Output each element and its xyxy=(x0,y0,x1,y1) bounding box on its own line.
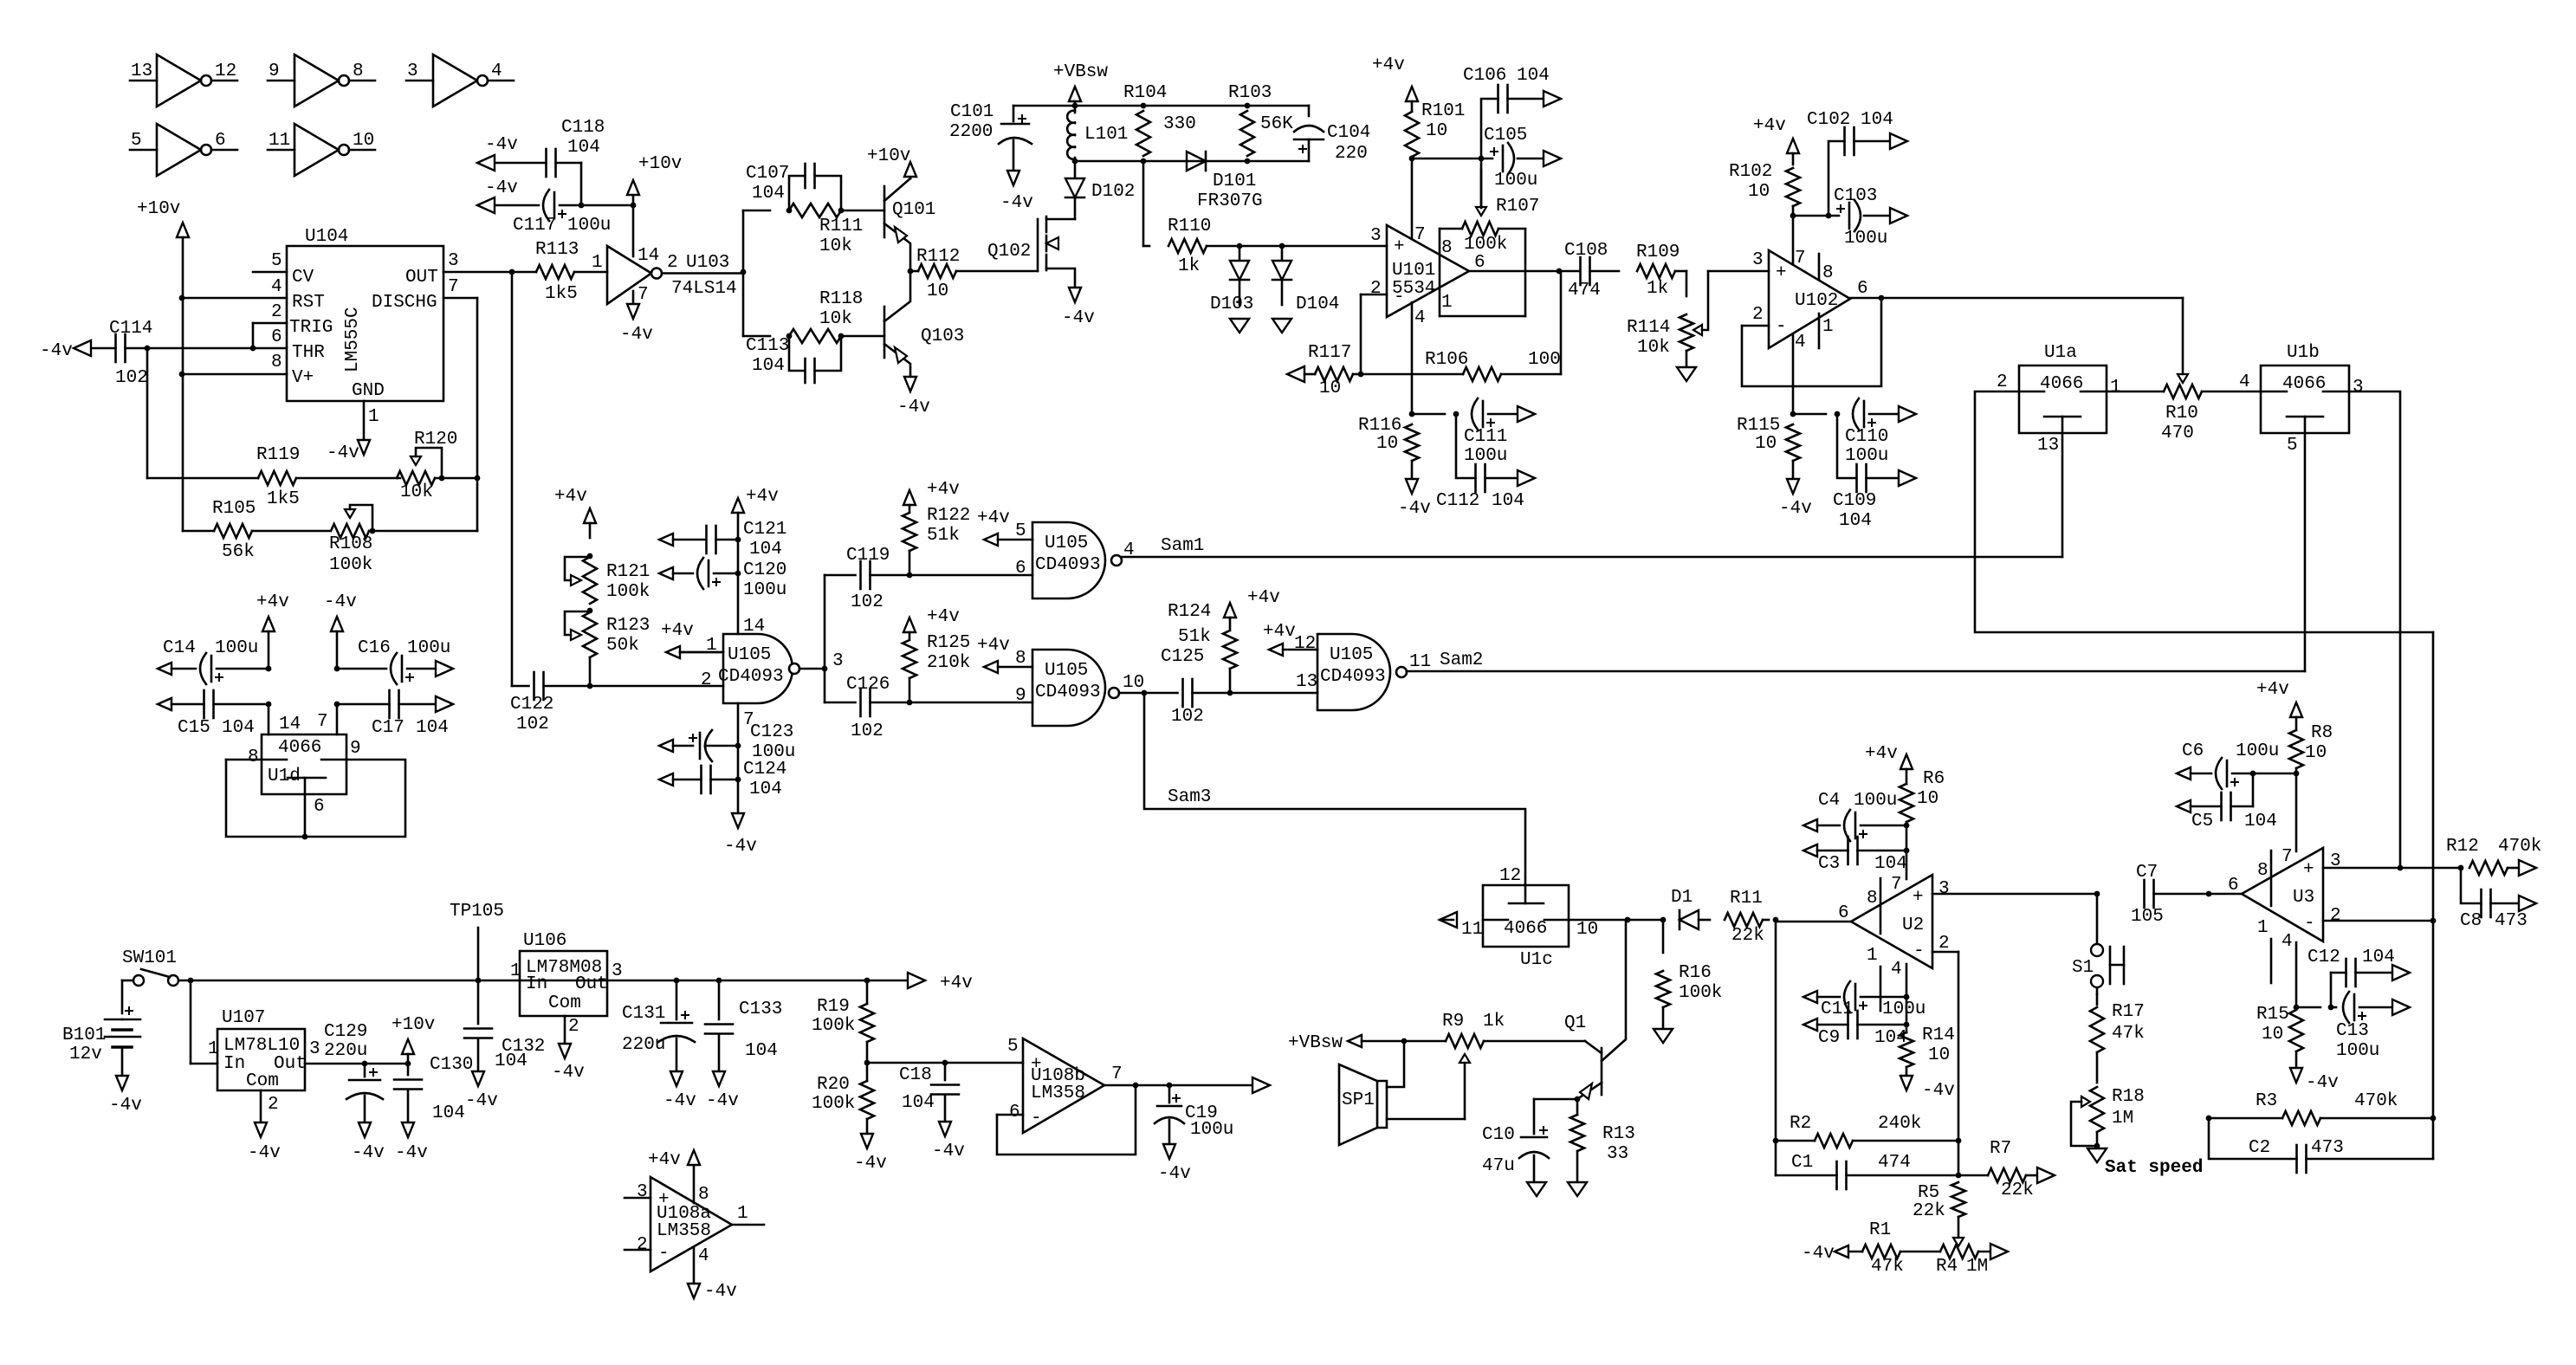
power -4v at C18 xyxy=(932,1122,965,1161)
diode D102 xyxy=(1065,161,1135,219)
signal arrow at R4 xyxy=(1990,1244,2008,1259)
svg-text:Sam1: Sam1 xyxy=(1161,536,1204,556)
svg-text:2: 2 xyxy=(2330,906,2341,926)
wire U1d pins 8-9-6 loop xyxy=(226,760,405,839)
nand gate U105 Sam1 xyxy=(1015,521,1135,598)
svg-text:100k: 100k xyxy=(812,1016,855,1036)
capacitor C121 104 xyxy=(659,520,786,560)
op-amp U101 5534 xyxy=(1370,225,1485,328)
svg-text:104: 104 xyxy=(1492,491,1524,511)
svg-text:C126: C126 xyxy=(846,675,890,695)
svg-text:100u: 100u xyxy=(743,580,786,600)
svg-text:C111: C111 xyxy=(1464,427,1507,447)
svg-text:Q103: Q103 xyxy=(921,327,964,346)
svg-text:7: 7 xyxy=(1414,225,1426,245)
power -4v at U103 pin 7 xyxy=(620,304,653,345)
svg-text:R10: R10 xyxy=(2165,404,2198,424)
svg-text:-4v: -4v xyxy=(932,1142,965,1161)
svg-text:47k: 47k xyxy=(1871,1257,1904,1277)
svg-text:+4v: +4v xyxy=(1247,588,1280,608)
svg-text:R113: R113 xyxy=(535,240,579,260)
svg-text:10: 10 xyxy=(2305,743,2327,763)
svg-text:5: 5 xyxy=(271,251,282,271)
svg-text:47k: 47k xyxy=(2112,1024,2145,1044)
signal arrow at C112 xyxy=(1518,470,1535,486)
wire U104 GND pin 1 xyxy=(363,401,366,441)
signal arrow at R7 xyxy=(2037,1168,2055,1183)
wire U108b output xyxy=(1104,1083,1252,1089)
svg-text:8: 8 xyxy=(1015,649,1026,669)
svg-text:4: 4 xyxy=(2239,372,2250,392)
svg-text:U105: U105 xyxy=(1330,645,1373,665)
analog switch U1b 4066 xyxy=(2239,343,2364,456)
ground at R114 xyxy=(1677,367,1696,381)
svg-text:-4v: -4v xyxy=(248,1143,281,1163)
svg-text:C106: C106 xyxy=(1463,66,1506,86)
wire U2 pin8 stub xyxy=(1880,878,1882,934)
svg-text:100k: 100k xyxy=(329,555,372,575)
svg-text:22k: 22k xyxy=(1913,1201,1945,1221)
trimmer R114 10k xyxy=(1627,271,1708,367)
svg-text:470k: 470k xyxy=(2354,1091,2398,1111)
svg-text:3: 3 xyxy=(612,961,623,981)
wire U104 V+ pin 8 xyxy=(179,372,287,378)
wire R107 wiper from +4v node xyxy=(1480,158,1483,208)
wire U101 pins 8-1 feedback loop xyxy=(1440,229,1525,316)
svg-text:-4v: -4v xyxy=(324,592,357,612)
svg-text:+4v: +4v xyxy=(977,636,1010,656)
power +4v at C14 xyxy=(256,592,289,669)
svg-text:C13: C13 xyxy=(2336,1021,2369,1041)
wire U105 pin8 +4v xyxy=(977,636,1032,673)
wire U104 RST pin 4 xyxy=(179,295,287,301)
svg-text:R13: R13 xyxy=(1602,1124,1635,1144)
svg-text:+4v: +4v xyxy=(1372,55,1405,75)
capacitor C117 100u xyxy=(494,190,636,236)
capacitor C16 100u xyxy=(334,638,451,684)
signal arrow at C110 xyxy=(1899,406,1916,422)
wire U108b pin6 feedback xyxy=(997,1085,1136,1155)
resistor R15 10 xyxy=(2256,1005,2303,1068)
wire L101 bottom rail xyxy=(1072,158,1309,165)
capacitor C108 474 xyxy=(1564,241,1619,301)
resistor R125 210k xyxy=(903,607,970,705)
switch SW101 xyxy=(122,948,178,986)
svg-text:7: 7 xyxy=(2282,847,2293,867)
svg-text:473: 473 xyxy=(2495,911,2527,931)
svg-text:C110: C110 xyxy=(1845,427,1888,447)
svg-text:C130: C130 xyxy=(430,1055,473,1075)
svg-text:-4v: -4v xyxy=(465,1091,498,1111)
power +10v at Q101 collector xyxy=(867,146,916,178)
power -4v at R14 xyxy=(1900,1076,1955,1101)
power +10v at C130 xyxy=(392,1015,435,1064)
svg-text:51k: 51k xyxy=(927,526,960,546)
power -4v at C132 xyxy=(465,1071,498,1111)
wire U105 pin9 line xyxy=(909,702,1032,704)
resistor R119 1k5 xyxy=(256,445,400,509)
svg-text:R1: R1 xyxy=(1869,1220,1891,1240)
svg-text:2: 2 xyxy=(667,253,678,273)
resistor R4 1M pot xyxy=(1936,1238,1990,1277)
resistor R3 470k xyxy=(2206,1091,2437,1125)
inverter U103 spare inverter 5-6 xyxy=(130,124,237,176)
svg-text:CD4093: CD4093 xyxy=(718,667,784,687)
svg-text:L101: L101 xyxy=(1084,125,1128,145)
svg-text:C12: C12 xyxy=(2307,948,2340,967)
svg-text:C17: C17 xyxy=(372,718,405,738)
signal arrow at C102 xyxy=(1890,133,1907,149)
resistor R103 56K xyxy=(1228,83,1293,156)
svg-text:3: 3 xyxy=(309,1039,320,1059)
svg-text:1: 1 xyxy=(208,1039,219,1059)
potentiometer R10 470 xyxy=(2107,298,2261,443)
svg-text:C2: C2 xyxy=(2249,1138,2270,1158)
svg-text:100u: 100u xyxy=(215,638,258,658)
svg-text:R123: R123 xyxy=(606,616,650,636)
power -4v at R20 xyxy=(854,1134,887,1174)
svg-text:SW101: SW101 xyxy=(122,948,177,968)
wire U101 pin7 supply xyxy=(1411,158,1414,239)
signal arrow at U1c pin11 xyxy=(1440,912,1457,928)
svg-text:-4v: -4v xyxy=(1922,1081,1955,1101)
wire U102 output xyxy=(1850,295,2183,301)
resistor R122 51k xyxy=(903,480,970,578)
wire Sam1 xyxy=(1122,536,2062,557)
power -4v at C133 xyxy=(706,1071,739,1111)
svg-text:-4v: -4v xyxy=(352,1143,385,1163)
svg-text:+4v: +4v xyxy=(746,487,779,507)
power -4v at R15 xyxy=(2290,1068,2339,1093)
speaker SP1 xyxy=(1339,1041,1465,1145)
wire R19 R20 node to U108b xyxy=(867,1037,1023,1065)
svg-text:1: 1 xyxy=(510,961,521,981)
svg-text:Sam3: Sam3 xyxy=(1168,787,1211,807)
svg-text:14: 14 xyxy=(638,246,659,266)
capacitor C113 104 xyxy=(746,333,844,383)
resistor R16 100k xyxy=(1656,920,1722,1029)
svg-text:7: 7 xyxy=(317,712,328,732)
signal arrow at C13 xyxy=(2392,999,2410,1015)
capacitor C133 104 xyxy=(705,980,782,1072)
wire U105 pin14 supply xyxy=(732,487,779,634)
capacitor C107 104 xyxy=(746,164,844,213)
wire U102 pin2 feedback xyxy=(1742,297,1881,386)
transistor Q1 xyxy=(1564,920,1626,1099)
svg-text:100u: 100u xyxy=(407,638,450,658)
svg-text:R7: R7 xyxy=(1990,1139,2011,1159)
svg-text:R107: R107 xyxy=(1496,197,1539,217)
svg-text:+VBsw: +VBsw xyxy=(1288,1033,1343,1053)
svg-text:1: 1 xyxy=(368,407,379,427)
analog switch U1a 4066 xyxy=(1997,343,2121,456)
svg-text:210k: 210k xyxy=(927,653,970,673)
svg-text:4: 4 xyxy=(1414,308,1426,328)
inverter U103 spare inverter 13-12 xyxy=(130,55,237,107)
wire U2 pin4 down xyxy=(1904,964,1910,999)
svg-text:10: 10 xyxy=(1576,920,1598,940)
svg-text:9: 9 xyxy=(350,739,361,759)
svg-text:R121: R121 xyxy=(606,562,650,582)
svg-text:-4v: -4v xyxy=(485,178,518,198)
svg-text:C16: C16 xyxy=(358,638,391,658)
svg-text:C109: C109 xyxy=(1833,491,1876,511)
svg-text:B101: B101 xyxy=(62,1025,106,1045)
svg-text:R9: R9 xyxy=(1442,1012,1464,1032)
svg-text:U104: U104 xyxy=(305,227,348,247)
svg-text:100u: 100u xyxy=(2336,1041,2379,1061)
svg-text:4: 4 xyxy=(271,277,282,297)
power -4v at C131 xyxy=(663,1071,696,1111)
svg-text:TRIG: TRIG xyxy=(289,318,333,338)
svg-text:4066: 4066 xyxy=(2040,374,2083,394)
capacitor C132 104 xyxy=(464,980,545,1072)
capacitor C103 100u xyxy=(1834,186,1890,249)
svg-text:C8: C8 xyxy=(2460,911,2482,931)
svg-text:U105: U105 xyxy=(1045,661,1088,681)
svg-text:CD4093: CD4093 xyxy=(1320,667,1386,687)
svg-text:+VBsw: +VBsw xyxy=(1053,62,1108,82)
svg-text:8: 8 xyxy=(248,747,259,767)
svg-text:12v: 12v xyxy=(69,1045,102,1064)
svg-text:+: + xyxy=(1913,888,1924,908)
svg-text:C120: C120 xyxy=(743,560,786,580)
svg-text:C18: C18 xyxy=(899,1065,932,1085)
capacitor C2 473 xyxy=(2209,1118,2433,1173)
ground at R13 xyxy=(1568,1182,1587,1196)
wire U105 gate1 output node xyxy=(799,575,827,702)
wire U107 out node xyxy=(305,1061,411,1067)
test point TP105 xyxy=(450,902,504,980)
svg-text:C101: C101 xyxy=(950,102,994,122)
inductor L101 xyxy=(1067,106,1128,161)
signal arrow at C17 xyxy=(436,696,453,712)
svg-text:6: 6 xyxy=(1857,279,1868,299)
regulator U106 LM78M08 xyxy=(510,931,623,1045)
resistor R105 56k xyxy=(212,499,329,562)
svg-text:+: + xyxy=(1776,263,1787,283)
power -4v at B101 xyxy=(109,1076,142,1116)
svg-text:-: - xyxy=(1031,1109,1042,1129)
svg-text:U1d: U1d xyxy=(268,767,301,786)
svg-text:104: 104 xyxy=(1517,66,1550,86)
svg-text:C104: C104 xyxy=(1327,123,1370,143)
svg-text:-4v: -4v xyxy=(40,341,73,361)
svg-text:R116: R116 xyxy=(1358,416,1401,436)
svg-text:U1a: U1a xyxy=(2044,343,2077,363)
svg-text:C107: C107 xyxy=(746,164,789,184)
svg-text:8: 8 xyxy=(698,1185,709,1205)
diode D1 xyxy=(1671,888,1710,929)
svg-text:2200: 2200 xyxy=(949,122,993,142)
svg-text:+4v: +4v xyxy=(977,508,1010,528)
svg-text:R115: R115 xyxy=(1737,416,1780,436)
svg-text:100u: 100u xyxy=(1845,446,1888,466)
svg-text:6: 6 xyxy=(1838,903,1849,923)
svg-text:U105: U105 xyxy=(1045,534,1088,553)
diode D104 xyxy=(1272,246,1339,314)
svg-text:C129: C129 xyxy=(324,1022,367,1042)
wire R103 rail to R110 xyxy=(1143,161,1149,246)
wire U105 pin7 down xyxy=(735,703,741,814)
capacitor C8 473 xyxy=(2460,868,2527,931)
power +10v at U103 pin 14 xyxy=(627,154,682,195)
svg-text:100k: 100k xyxy=(606,582,650,602)
capacitor C10 47u xyxy=(1482,1125,1549,1182)
svg-text:10: 10 xyxy=(1376,434,1398,454)
svg-text:-4v: -4v xyxy=(1062,308,1095,328)
svg-text:56k: 56k xyxy=(222,542,255,562)
capacitor C114 xyxy=(90,319,152,388)
signal arrow at R117 xyxy=(1287,366,1315,382)
svg-text:7: 7 xyxy=(1795,249,1806,268)
svg-text:6: 6 xyxy=(1009,1103,1020,1122)
svg-text:10: 10 xyxy=(2262,1025,2283,1045)
power -4v at U105 pin7 xyxy=(724,813,757,857)
svg-text:102: 102 xyxy=(851,721,883,741)
svg-text:C113: C113 xyxy=(746,336,789,356)
inverter U103 74LS14 xyxy=(607,195,743,305)
svg-text:104: 104 xyxy=(752,184,785,204)
svg-text:C108: C108 xyxy=(1564,241,1608,261)
svg-text:102: 102 xyxy=(516,715,549,734)
svg-text:104: 104 xyxy=(567,138,600,158)
signal arrow out at C106 xyxy=(1544,91,1561,107)
svg-text:RST: RST xyxy=(292,293,325,313)
capacitor C18 104 xyxy=(899,1063,959,1122)
svg-text:-: - xyxy=(658,1244,670,1264)
resistor R12 470k xyxy=(2446,837,2541,875)
wire U3 pin4 down xyxy=(2294,942,2300,1010)
inverter U103 spare inverter 3-4 xyxy=(406,55,514,107)
wire U105 pin2 line xyxy=(590,685,723,688)
wire U3 pin1 stub xyxy=(2270,939,2273,983)
svg-text:104: 104 xyxy=(432,1103,465,1123)
inverter U103 spare inverter 9-8 xyxy=(268,55,375,107)
svg-text:Sat speed: Sat speed xyxy=(2105,1158,2203,1178)
wire U102 pin1 stub xyxy=(1818,314,1821,348)
wire pin2 net down to R3 xyxy=(2432,921,2435,1118)
svg-text:100u: 100u xyxy=(567,216,611,236)
resistor R115 10 xyxy=(1737,416,1800,477)
signal arrow at U108b out xyxy=(1252,1077,1270,1093)
svg-text:+: + xyxy=(1394,237,1405,257)
svg-text:12: 12 xyxy=(215,61,236,81)
svg-text:Q1: Q1 xyxy=(1564,1013,1586,1033)
svg-text:7: 7 xyxy=(1891,875,1902,895)
capacitor C129 220u xyxy=(324,1022,383,1123)
svg-text:LM358: LM358 xyxy=(1031,1084,1085,1103)
svg-text:104: 104 xyxy=(222,718,255,738)
svg-text:D1: D1 xyxy=(1671,888,1693,908)
svg-text:8: 8 xyxy=(1867,889,1878,909)
svg-text:3: 3 xyxy=(2353,378,2364,398)
signal arrow at C8 xyxy=(2519,896,2536,911)
svg-text:+4v: +4v xyxy=(256,592,289,612)
wire U102 pin4 down xyxy=(1790,334,1796,417)
svg-text:-4v: -4v xyxy=(1802,1244,1835,1264)
svg-text:100k: 100k xyxy=(1464,235,1507,255)
capacitor C11 100u xyxy=(1803,981,1926,1019)
capacitor C126 102 xyxy=(825,675,909,741)
resistor R20 100k xyxy=(812,1063,874,1135)
svg-text:U3: U3 xyxy=(2293,888,2314,908)
wire +4v node to C105 xyxy=(1412,156,1492,162)
svg-text:V+: V+ xyxy=(292,368,314,388)
svg-text:4: 4 xyxy=(698,1246,709,1266)
svg-text:100k: 100k xyxy=(1679,983,1722,1003)
svg-text:C1: C1 xyxy=(1791,1153,1813,1173)
svg-text:104: 104 xyxy=(752,356,785,376)
op-amp U108b LM358 xyxy=(1009,1038,1123,1133)
svg-text:-: - xyxy=(2304,914,2315,934)
resistor R7 22k xyxy=(1958,1139,2037,1200)
svg-text:D102: D102 xyxy=(1091,182,1135,202)
svg-text:C118: C118 xyxy=(561,118,605,138)
svg-text:+4v: +4v xyxy=(554,487,587,507)
svg-text:100u: 100u xyxy=(1464,446,1507,466)
svg-text:R3: R3 xyxy=(2256,1091,2277,1111)
svg-text:7: 7 xyxy=(448,277,459,297)
capacitor C7 105 xyxy=(2131,863,2211,927)
svg-text:R124: R124 xyxy=(1168,602,1211,622)
wire Sam3 xyxy=(1144,693,1525,885)
power -4v at R116 xyxy=(1398,479,1431,519)
wire THR net to R119 xyxy=(147,348,258,478)
svg-text:C122: C122 xyxy=(510,695,553,715)
svg-text:3: 3 xyxy=(448,251,459,271)
svg-text:3: 3 xyxy=(1370,226,1382,246)
svg-text:+10v: +10v xyxy=(392,1015,435,1035)
svg-text:1: 1 xyxy=(1867,946,1878,966)
signal arrow at C12 xyxy=(2392,965,2410,980)
svg-text:104: 104 xyxy=(2362,948,2395,967)
ground at C10 xyxy=(1527,1182,1546,1196)
resistor R106 100 xyxy=(1361,271,1561,381)
svg-text:4: 4 xyxy=(1795,333,1806,353)
svg-text:3: 3 xyxy=(832,651,844,671)
wire U1b pin3 down to U3 xyxy=(2349,391,2400,868)
svg-text:474: 474 xyxy=(1878,1153,1911,1173)
svg-text:13: 13 xyxy=(1296,672,1317,692)
svg-text:C6: C6 xyxy=(2182,741,2204,761)
wire U104 TRIG pin 2 jog xyxy=(250,323,287,351)
signal arrow -4v at C114 xyxy=(40,340,91,361)
svg-text:104: 104 xyxy=(1861,110,1893,130)
svg-text:Com: Com xyxy=(548,993,581,1013)
svg-text:8: 8 xyxy=(271,353,282,372)
svg-text:1k5: 1k5 xyxy=(545,284,578,304)
svg-text:10: 10 xyxy=(1123,673,1144,693)
svg-text:-4v: -4v xyxy=(485,135,518,155)
power -4v at Q102 source xyxy=(1062,288,1095,328)
svg-text:104: 104 xyxy=(495,1051,527,1071)
svg-text:220: 220 xyxy=(1335,144,1368,164)
wire +VBsw top rail xyxy=(1013,103,1309,109)
op-amp U2 xyxy=(1838,875,1950,980)
resistor R8 10 xyxy=(2256,680,2333,773)
svg-text:R122: R122 xyxy=(927,506,970,526)
svg-text:10k: 10k xyxy=(1637,338,1670,358)
signal arrow -4v at C117 xyxy=(477,178,518,213)
svg-text:CD4093: CD4093 xyxy=(1035,555,1101,575)
svg-text:5: 5 xyxy=(2287,436,2298,456)
svg-text:R108: R108 xyxy=(329,534,372,554)
wire U3 pin2 node xyxy=(2323,918,2436,924)
svg-text:R16: R16 xyxy=(1679,963,1712,983)
svg-text:+10v: +10v xyxy=(638,154,682,174)
svg-text:In: In xyxy=(223,1054,245,1074)
